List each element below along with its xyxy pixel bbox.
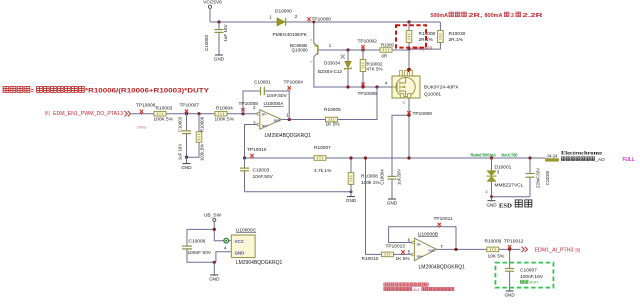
svg-text:U10000B: U10000B [418, 231, 438, 237]
test point TP10013 [401, 250, 404, 255]
svg-text:800mA: 800mA [485, 13, 503, 19]
junction Q10001 drain [407, 68, 411, 72]
svg-text:R1000: R1000 [381, 43, 394, 48]
capacitor C10007 100nF 16V [505, 249, 514, 290]
wire gate node down to R10005 [338, 87, 378, 120]
wire VCC5V0 stem [209, 8, 211, 22]
power ring VCC pin [224, 238, 229, 243]
wire C10003 bottom to R10008 bottom [245, 191, 352, 193]
svg-text:GND: GND [504, 293, 515, 298]
junction R10008 top [349, 156, 352, 159]
svg-text:2: 2 [486, 190, 488, 194]
wire drain node down to Q10001 [408, 49, 410, 70]
svg-text:D10000: D10000 [275, 8, 292, 14]
svg-text:C10000: C10000 [204, 35, 209, 52]
test point TP10002 [361, 45, 364, 50]
svg-text:TP10006: TP10006 [136, 103, 156, 109]
svg-text:R10010: R10010 [362, 256, 379, 262]
svg-text:TP10007: TP10007 [180, 103, 200, 109]
svg-text:102k,5%: 102k,5% [200, 144, 205, 161]
svg-text:in+: in+ [417, 253, 424, 258]
junction zener bottom [346, 85, 349, 88]
svg-text:TP10004: TP10004 [284, 79, 304, 85]
svg-text:TP10013: TP10013 [386, 244, 406, 250]
note when function unused line 1 [384, 283, 428, 286]
wire R10009 to net flag [499, 248, 521, 250]
junction op-amp A output node [288, 118, 291, 121]
svg-text:GND: GND [346, 198, 357, 203]
svg-text:47K 5%: 47K 5% [367, 66, 383, 71]
resistor R10030 2R 1% [409, 22, 443, 49]
svg-text:220nF,50V: 220nF,50V [536, 168, 541, 188]
resistor R10008 100k 1% [348, 158, 354, 196]
svg-text:C10006: C10006 [189, 239, 206, 245]
wire R10005 to op-amp output [282, 119, 326, 121]
junction R10005 tap [375, 85, 378, 88]
svg-text:Q10001: Q10001 [424, 91, 441, 97]
junction TP10007 node [185, 112, 188, 115]
power symbol UB_SW [204, 213, 222, 222]
capacitor C10001 10nF 50V [261, 87, 265, 95]
wire R10006 sense tap down to R10010 [366, 158, 382, 254]
svg-text:in-: in- [262, 112, 268, 117]
test point TP10007 [185, 110, 188, 115]
wire Q10000 base line to R10001 [318, 49, 380, 51]
svg-text:R10006: R10006 [200, 116, 205, 132]
wire Q10000 emitter to top rail [314, 22, 318, 46]
svg-text:LM2904BQDGKRQ1: LM2904BQDGKRQ1 [265, 133, 312, 139]
svg-text:*R10006/(R10006+R10003)*DUTY: *R10006/(R10006+R10003)*DUTY [85, 87, 210, 94]
capacitor C10002 1uF 16V [178, 114, 191, 161]
wire op-amp B output to R10009 [437, 248, 487, 250]
wire branch to C10006 [187, 229, 214, 246]
svg-text:ESD: ESD [499, 202, 512, 209]
svg-text:GND: GND [209, 277, 220, 282]
junction R10006 tap [197, 112, 200, 115]
resistor R10009 10K 5% [487, 247, 499, 252]
note option green [520, 280, 539, 285]
junction UB_SW node [213, 228, 216, 231]
ground below C10002 [181, 157, 192, 170]
resistor R10001 0R [380, 48, 392, 53]
power symbol VCC5V0 [203, 0, 222, 8]
junction R10002 tap [361, 48, 364, 51]
test point TP10010 [250, 154, 253, 159]
wire R10001 to drain node [392, 48, 409, 51]
note ESD device [499, 200, 532, 209]
resistor R10004 100K 5% [215, 111, 227, 116]
test point TP10005 [361, 83, 364, 88]
svg-text:Electrochrome: Electrochrome [561, 152, 602, 157]
junction R10000 bottom [407, 48, 410, 51]
junction pin3 C10003 node [243, 156, 246, 159]
svg-text:1uF 16V: 1uF 16V [178, 144, 183, 161]
note 500mA use one 2R / 800mA use two 2.2R [431, 12, 543, 19]
wire sense line TP10010 to connector [245, 157, 546, 159]
svg-text:2R,1%: 2R,1% [449, 37, 464, 43]
option dashed box around C10007 [495, 263, 553, 288]
wire U10000B feedback loop via TP10011 [389, 227, 456, 250]
svg-text:GND: GND [181, 165, 192, 170]
svg-text:GND: GND [486, 202, 497, 207]
svg-text:n: n [311, 38, 313, 42]
svg-text:s1: s1 [402, 101, 406, 105]
svg-text:1uF 16V: 1uF 16V [223, 23, 228, 41]
svg-text:TP10010: TP10010 [247, 147, 267, 153]
svg-text:10nF,50V: 10nF,50V [253, 174, 274, 180]
junction R10008 bottom [350, 190, 353, 193]
svg-text:10nF,50V: 10nF,50V [267, 93, 288, 99]
svg-text:10K 5%: 10K 5% [488, 254, 506, 260]
test point TP10008 [241, 108, 244, 113]
junction D10001 tap [490, 156, 493, 159]
junction ESD ground node [490, 195, 493, 198]
ground below R10008 [346, 197, 357, 204]
svg-text:EDM1_AI_PTH3: EDM1_AI_PTH3 [535, 247, 574, 253]
svg-text:C10001: C10001 [254, 79, 271, 85]
svg-text:J4-24: J4-24 [547, 153, 559, 158]
svg-text:TP10011: TP10011 [434, 216, 453, 222]
svg-text:500mA: 500mA [431, 13, 449, 19]
IC power block U10000C [231, 235, 255, 258]
junction R10002 bottom [361, 85, 364, 88]
svg-text:D10001: D10001 [495, 165, 512, 171]
wire net label to R10003 [131, 113, 154, 115]
junction source sense tap [407, 156, 410, 159]
svg-text:100k 1%: 100k 1% [361, 180, 380, 186]
svg-text:out: out [274, 117, 281, 122]
svg-text:2R,: 2R, [469, 13, 484, 19]
wire pin2 node up to C10001 [243, 91, 260, 114]
svg-text:_AO: _AO [595, 157, 606, 162]
svg-text:1K 5%: 1K 5% [326, 122, 341, 128]
junction emitter tap [312, 21, 315, 24]
net label EDM1_AI_PTH3 [522, 247, 581, 254]
svg-text:20Ra: 20Ra [137, 124, 147, 129]
capacitor C10004 1uF 50V [379, 115, 409, 198]
ground below D10001 [486, 197, 497, 208]
wire R10010 to op-amp pin 5 [394, 253, 413, 255]
svg-text:Rated:500mA: Rated:500mA [471, 152, 497, 157]
svg-text:R10009: R10009 [485, 239, 502, 245]
svg-text:LM2904BQDGKRQ1: LM2904BQDGKRQ1 [419, 264, 466, 270]
resistor R10006 100k [187, 114, 205, 161]
svg-text:=: = [31, 87, 35, 94]
svg-text:100K 5%: 100K 5% [215, 117, 235, 123]
svg-text:U10000A: U10000A [264, 101, 285, 107]
capacitor C10006 100nF 50V [182, 246, 214, 262]
junction op-amp B output node [454, 248, 457, 251]
DNP dashed box around R10000 [396, 25, 426, 47]
wire ring to U10000C VCC [229, 240, 232, 242]
ground below C10004 [387, 199, 398, 206]
svg-text:2.2R: 2.2R [523, 13, 543, 19]
svg-text:GND: GND [387, 201, 398, 206]
svg-text:in+: in+ [262, 123, 269, 128]
transistor Q10000 BC856B [314, 43, 318, 56]
wire R10003 to R10004 [166, 113, 215, 115]
svg-text:1K 5%: 1K 5% [396, 256, 411, 262]
svg-text:in-: in- [417, 242, 423, 247]
test point TP10004 [288, 86, 291, 91]
transistor Q10001 BUK9Y24-40PX power MOSFET [392, 71, 420, 99]
ground below C10000 [214, 55, 225, 62]
ESD diode D10001 MMBZ27VCL [487, 158, 497, 197]
capacitor C10000 1uF 16V [204, 22, 228, 55]
svg-text:GND: GND [214, 57, 225, 62]
svg-text:TP10012: TP10012 [504, 239, 524, 245]
resistor R10010 1K 5% [382, 252, 394, 257]
svg-text:VCC5V0: VCC5V0 [203, 0, 222, 6]
svg-text:UB_SW: UB_SW [204, 213, 222, 219]
ground below U10000C [209, 262, 220, 281]
svg-text:R10004: R10004 [216, 106, 233, 112]
svg-text:C10002: C10002 [178, 116, 183, 132]
svg-text:MAX:T80: MAX:T80 [502, 152, 518, 157]
svg-text:C10004: C10004 [379, 169, 384, 185]
resistor R10002 47K 5% [360, 50, 366, 87]
svg-text:R10005: R10005 [324, 107, 341, 113]
svg-text:R10003: R10003 [156, 106, 173, 112]
svg-text:100nF 50V: 100nF 50V [188, 250, 212, 256]
test point TP10006 [140, 110, 143, 115]
svg-text:2: 2 [511, 13, 514, 19]
svg-text:TP10005: TP10005 [358, 91, 378, 97]
junction C10006 GND join [213, 261, 216, 264]
svg-text:C10003: C10003 [253, 168, 270, 174]
junction C10005 tap [528, 156, 531, 159]
svg-text:FULL: FULL [623, 157, 636, 163]
svg-text:D33034: D33034 [324, 61, 341, 66]
ground below C10007 [504, 291, 515, 298]
test point TP10011 [438, 223, 441, 228]
wire U10000C GND pin [216, 252, 231, 263]
svg-text:R10000: R10000 [419, 31, 436, 37]
wire op-amp pin3 down to sense line [245, 125, 258, 159]
test point TP10012 [508, 245, 511, 250]
junction C10002 R10006 join [185, 156, 188, 159]
test point TP10009 [407, 111, 410, 116]
svg-text:TP10009: TP10009 [413, 111, 433, 117]
resistor R10005 1K 5% [326, 117, 338, 122]
svg-text:4.7k,1%: 4.7k,1% [314, 168, 332, 174]
svg-text:R10008: R10008 [361, 173, 378, 179]
svg-text:1uF,50V: 1uF,50V [397, 169, 402, 185]
junction sense R10010 tap [364, 156, 367, 159]
svg-text:out: out [428, 247, 435, 252]
note electrochromic control output _AO [561, 157, 605, 162]
svg-text:VCC: VCC [235, 239, 245, 244]
svg-text:[6]: [6] [576, 247, 581, 252]
svg-text:C10007: C10007 [520, 268, 537, 274]
connector pin J4-24 [546, 153, 559, 161]
svg-text:4v7: 4v7 [413, 287, 420, 292]
diode D10000 PMEG4010EPK [277, 18, 286, 26]
wire D10000 cathode to R10000 branch [286, 21, 440, 23]
svg-text:GND: GND [235, 250, 245, 255]
svg-text:2K07: 2K07 [529, 280, 539, 285]
op-amp U10000A LM2904BQDGKRQ1 [257, 110, 282, 129]
svg-text:BUK9Y24-40PX: BUK9Y24-40PX [424, 84, 459, 90]
junction source node [407, 114, 410, 117]
wire Q10000 collector / gate drive line [314, 57, 392, 87]
junction R10000 top [407, 20, 410, 23]
svg-text:U10000C: U10000C [236, 227, 257, 233]
capacitor C10005 220nF 50V [526, 158, 551, 197]
svg-text:C10005: C10005 [545, 170, 550, 185]
capacitor C10003 10nF 50V [240, 158, 249, 192]
wire Q10001 source down to sense line [408, 98, 410, 158]
svg-text:[6]: [6] [45, 111, 50, 116]
svg-text:Q10000: Q10000 [292, 48, 309, 53]
junction zener tap [346, 48, 349, 51]
svg-text:BZX84-C12: BZX84-C12 [318, 69, 342, 74]
svg-text:n: n [311, 60, 313, 64]
resistor R10000 2R 1% [406, 22, 412, 49]
net label EDM_EN1_PWM_DO_PTA13 [45, 111, 131, 117]
junction C10000 tap [217, 20, 220, 23]
svg-text:TP10002: TP10002 [358, 39, 378, 45]
svg-text:R10007: R10007 [314, 145, 331, 151]
test point TP10000 [307, 17, 310, 22]
wire C10001 to op-amp A output [265, 91, 289, 120]
svg-text:MMBZ27VCL: MMBZ27VCL [495, 183, 524, 189]
note when function unused line 2 [384, 287, 454, 292]
svg-text:LM2904BQDGKRQ1: LM2904BQDGKRQ1 [236, 260, 283, 266]
wire top rail VCC to D10000 anode [210, 21, 277, 23]
svg-text:EDM_EN1_PWM_DO_PTA13: EDM_EN1_PWM_DO_PTA13 [53, 111, 123, 117]
wire D10001 bottom to C10005 bottom [492, 196, 531, 198]
junction TP10012 node [508, 248, 511, 251]
svg-text:0R: 0R [382, 54, 388, 59]
resistor R10007 4.7k 1% [314, 156, 326, 161]
wire UB_SW to VCC pin [214, 222, 224, 241]
svg-text:PMEG4010EPK: PMEG4010EPK [273, 32, 308, 38]
resistor R10003 100K 5% [154, 111, 166, 116]
svg-text:100K 5%: 100K 5% [154, 117, 174, 123]
junction TP10008 node [241, 112, 244, 115]
svg-text:R10030: R10030 [449, 31, 466, 37]
op-amp U10000B LM2904BQDGKRQ1 [412, 238, 437, 260]
wire R10004 to op-amp pin 2 [227, 113, 257, 115]
zener diode D33034 BZX84-C12 (DNP) [341, 50, 352, 87]
formula output voltage note [3, 87, 210, 95]
